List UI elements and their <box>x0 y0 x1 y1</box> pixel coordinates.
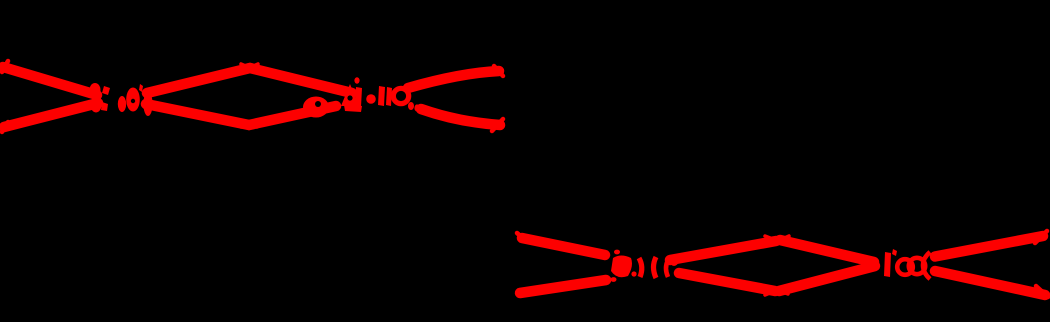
vertex flicks X3/X4 top <box>778 236 789 241</box>
stroke S4b: X2 ascending, right of word2 <box>408 71 499 88</box>
word W4 letters (red handwriting fragments) <box>884 249 930 279</box>
stroke S3b: X2 descending, right of word2 <box>421 109 500 125</box>
vertex flicks X1 bottom <box>249 125 257 127</box>
stroke S6a: X3 ascending, left of word3 <box>520 280 606 293</box>
stroke S4a: X2 ascending, left of word2 <box>249 106 336 125</box>
stroke S8a: X4 ascending, left of word4 <box>779 266 875 291</box>
stroke S1a: X1 descending, left of word1 <box>3 67 97 95</box>
stroke S2b: X1 ascending, right of word1 <box>147 68 250 93</box>
flick at S8b end <box>1035 231 1047 243</box>
word W2 letters (red handwriting fragments) <box>303 77 420 117</box>
flick at S2 start <box>2 122 8 132</box>
stroke S6b: X3 ascending, right of word3 <box>670 241 776 260</box>
vertex flicks X3/X4 bottom <box>777 290 788 294</box>
flick at S4b end <box>494 66 503 76</box>
flick at S7b end <box>1036 286 1048 297</box>
stroke S8b: X4 ascending, right of word4 <box>935 236 1043 257</box>
stroke S5b: X3 descending, right of word3 <box>679 273 775 291</box>
stroke S2a: X1 ascending, left of word1 <box>4 103 98 127</box>
vertex flicks X1 top <box>249 64 258 68</box>
stroke S7a: X4 descending, left of word4 <box>780 240 874 262</box>
stroke S3a: X2 descending, left of word2 <box>250 68 352 93</box>
word W1 letters (red handwriting fragments) <box>90 83 153 116</box>
stroke S7b: X4 descending, right of word4 <box>935 271 1045 295</box>
stroke S5a: X3 descending, left of word3 <box>522 238 605 255</box>
flick at S5a start <box>517 233 525 240</box>
word W3 letters (red handwriting fragments) <box>611 250 679 282</box>
stroke S1b: X1 descending, right of word1 <box>146 104 249 125</box>
flick at S1 start <box>2 61 8 72</box>
flick at S3b end <box>492 119 503 131</box>
